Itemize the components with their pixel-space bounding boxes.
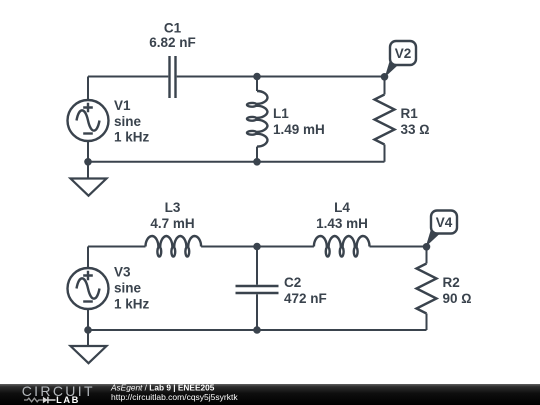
junction top of C2 bbox=[253, 243, 261, 251]
svg-text:L1: L1 bbox=[273, 106, 289, 121]
svg-text:R1: R1 bbox=[401, 106, 419, 121]
voltage source V3 bbox=[68, 268, 109, 309]
node V4 callout bbox=[426, 211, 457, 247]
wire top-left (V1 top to C1 left plate) bbox=[88, 77, 168, 101]
label V1 value bbox=[114, 98, 150, 145]
wire bottom (left to right along y=161.8) bbox=[88, 161, 385, 163]
svg-text:LAB: LAB bbox=[56, 395, 80, 405]
svg-text:90 Ω: 90 Ω bbox=[443, 291, 472, 306]
inductor L1 bbox=[247, 91, 268, 147]
junction bottom of L1 bbox=[253, 158, 261, 166]
svg-text:C1: C1 bbox=[164, 20, 182, 35]
label L4 value bbox=[316, 200, 368, 231]
svg-text:L3: L3 bbox=[165, 200, 181, 215]
wire V3 bottom stub bbox=[87, 309, 89, 330]
label V3 value bbox=[114, 265, 150, 312]
junction bottom-left (ground, bottom circuit) bbox=[84, 326, 92, 334]
wire L4 to corner bbox=[370, 246, 427, 248]
junction bottom of C2 bbox=[253, 326, 261, 334]
junction node V4 bbox=[423, 243, 431, 251]
svg-text:sine: sine bbox=[114, 281, 142, 296]
svg-text:1.43 mH: 1.43 mH bbox=[316, 216, 368, 231]
label L1 value bbox=[273, 106, 325, 137]
capacitor C1 bbox=[170, 56, 176, 98]
wire bottom (bottom circuit) bbox=[88, 329, 427, 331]
inductor L3 bbox=[146, 236, 202, 257]
svg-text:C2: C2 bbox=[284, 275, 301, 290]
svg-text:V1: V1 bbox=[114, 98, 131, 113]
svg-text:L4: L4 bbox=[334, 200, 350, 215]
inductor L4 bbox=[314, 236, 370, 257]
capacitor C2 bbox=[236, 286, 279, 293]
wire ground stub (top circuit) bbox=[87, 162, 89, 179]
svg-text:33 Ω: 33 Ω bbox=[401, 122, 430, 137]
wire L3 to C2/L4 junction bbox=[201, 246, 314, 248]
svg-text:6.82 nF: 6.82 nF bbox=[149, 35, 196, 50]
ground (top circuit) bbox=[71, 179, 107, 196]
label C2 value bbox=[284, 275, 327, 306]
svg-text:V2: V2 bbox=[395, 46, 412, 61]
voltage source V1 bbox=[68, 100, 109, 141]
resistor R1 bbox=[375, 95, 395, 145]
junction top of L1 bbox=[253, 73, 261, 81]
node V2 callout bbox=[385, 41, 416, 77]
svg-text:472 nF: 472 nF bbox=[284, 291, 327, 306]
label R2 value bbox=[443, 275, 472, 306]
junction node V2 bbox=[381, 73, 389, 81]
ground (bottom circuit) bbox=[71, 346, 107, 363]
label L3 value bbox=[150, 200, 194, 231]
junction bottom-left (ground) bbox=[84, 158, 92, 166]
wire R2 stubs bbox=[426, 247, 428, 331]
svg-text:1.49 mH: 1.49 mH bbox=[273, 122, 325, 137]
wire ground stub (bottom circuit) bbox=[87, 330, 89, 346]
wire top-left (V3 to L3) bbox=[88, 247, 146, 269]
svg-text:http://circuitlab.com/cqsy5j5s: http://circuitlab.com/cqsy5j5syrktk bbox=[111, 392, 238, 402]
svg-text:V3: V3 bbox=[114, 265, 131, 280]
svg-text:4.7 mH: 4.7 mH bbox=[150, 216, 194, 231]
label R1 value bbox=[401, 106, 430, 137]
svg-text:V4: V4 bbox=[436, 215, 453, 230]
svg-text:1 kHz: 1 kHz bbox=[114, 296, 150, 311]
label C1 value bbox=[149, 20, 196, 50]
svg-text:1 kHz: 1 kHz bbox=[114, 130, 150, 145]
resistor R2 bbox=[417, 264, 437, 314]
wire C2 stubs bbox=[256, 247, 258, 331]
wire L1 stubs bbox=[256, 77, 258, 162]
svg-text:R2: R2 bbox=[443, 275, 460, 290]
wire R1 stubs bbox=[384, 77, 386, 162]
wire top-right (C1 right plate to top-right corner) bbox=[177, 76, 385, 78]
svg-text:sine: sine bbox=[114, 114, 142, 129]
wire V1 bottom stub bbox=[87, 141, 89, 162]
logo resistor-diode waveform bbox=[24, 397, 56, 403]
